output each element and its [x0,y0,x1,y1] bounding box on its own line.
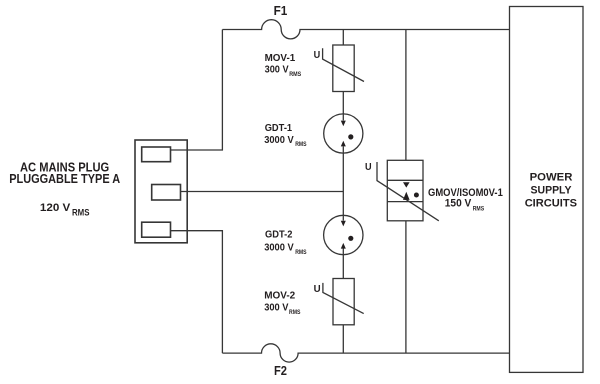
svg-text:150 V: 150 V [445,198,472,210]
svg-text:MOV-1: MOV-1 [265,52,296,64]
svg-text:F1: F1 [274,4,288,18]
svg-text:RMS: RMS [295,249,307,256]
svg-text:RMS: RMS [473,205,485,212]
svg-text:3000 V: 3000 V [264,242,294,254]
svg-text:U: U [314,49,321,61]
svg-text:RMS: RMS [295,141,307,148]
svg-text:GDT-2: GDT-2 [265,229,293,241]
svg-text:POWER: POWER [530,172,573,184]
svg-text:300 V: 300 V [265,64,289,76]
svg-text:CIRCUITS: CIRCUITS [525,198,578,210]
svg-text:300 V: 300 V [264,301,288,313]
svg-text:SUPPLY: SUPPLY [531,185,573,197]
svg-text:3000 V: 3000 V [264,134,294,146]
svg-text:GDT-1: GDT-1 [265,122,293,134]
svg-text:RMS: RMS [72,207,90,217]
svg-text:RMS: RMS [289,71,302,78]
svg-text:MOV-2: MOV-2 [264,289,295,301]
svg-text:F2: F2 [274,364,287,378]
svg-text:120 V: 120 V [40,202,71,214]
svg-text:U: U [365,161,372,173]
svg-text:PLUGGABLE TYPE A: PLUGGABLE TYPE A [9,171,121,186]
svg-text:U: U [314,283,321,295]
svg-text:RMS: RMS [289,309,301,316]
